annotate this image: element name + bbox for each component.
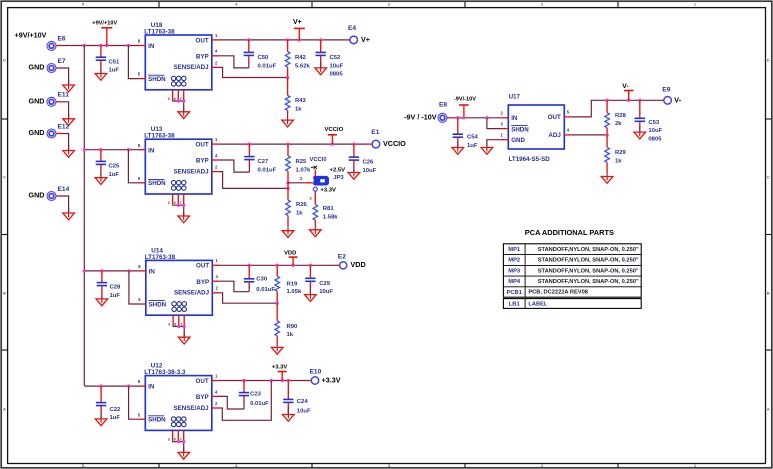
net stub VCCI0 at JP3 pin1 <box>310 157 327 178</box>
wire U14 SENSE/ADJ to divider <box>219 293 279 305</box>
svg-text:0.01uF: 0.01uF <box>258 63 277 69</box>
svg-text:BYP: BYP <box>196 158 209 165</box>
svg-text:1.07k: 1.07k <box>296 168 311 174</box>
svg-text:E12: E12 <box>58 123 70 130</box>
svg-text:BYP: BYP <box>196 394 209 401</box>
svg-text:0805: 0805 <box>648 136 662 142</box>
svg-text:C54: C54 <box>467 135 479 141</box>
capacitor C23 <box>239 381 269 410</box>
resistor R90 <box>275 303 298 342</box>
svg-text:LT1763-38: LT1763-38 <box>145 254 176 261</box>
svg-text:GND: GND <box>29 191 45 200</box>
svg-text:5: 5 <box>138 412 141 417</box>
svg-text:VDD: VDD <box>351 260 366 269</box>
svg-text:STANDOFF,NYLON, SNAP-ON, 0.250: STANDOFF,NYLON, SNAP-ON, 0.250" <box>538 247 639 253</box>
svg-text:+3.3V: +3.3V <box>320 188 336 194</box>
capacitor C27 <box>244 144 276 173</box>
regulator U12 LT1763-38-3.3 <box>144 363 212 431</box>
U18 pin 4 BYP stub <box>212 49 219 56</box>
svg-text:4: 4 <box>235 2 238 7</box>
regulator U13 LT1763-38 <box>144 126 212 194</box>
svg-text:1k: 1k <box>615 158 622 164</box>
svg-text:10uF: 10uF <box>319 289 333 295</box>
svg-text:R19: R19 <box>287 281 299 287</box>
capacitor C50 <box>244 40 277 69</box>
svg-text:SHDN: SHDN <box>148 417 166 424</box>
wire U14 BYP loop <box>219 281 249 292</box>
svg-text:4: 4 <box>215 153 218 158</box>
svg-text:C28: C28 <box>110 285 122 291</box>
wire U17 OUT rail V- <box>571 99 664 117</box>
svg-text:C53: C53 <box>648 120 660 126</box>
ground at R90 <box>271 342 283 354</box>
net label +3.3V at E10 <box>322 375 341 384</box>
svg-text:1k: 1k <box>287 332 294 338</box>
ground at E14 <box>63 208 75 220</box>
svg-text:C26: C26 <box>363 160 375 166</box>
net label VCCIO at E1 <box>383 139 406 148</box>
svg-text:B: B <box>3 290 6 295</box>
U14 pin 5 SHDN stub <box>138 297 146 304</box>
turret E4 V+ output <box>348 25 358 44</box>
svg-text:0.01uF: 0.01uF <box>250 401 269 407</box>
svg-text:6: 6 <box>174 97 176 101</box>
svg-text:SENSE/ADJ: SENSE/ADJ <box>174 405 210 412</box>
svg-text:1uF: 1uF <box>467 143 478 149</box>
U12 pin 8 IN stub <box>138 379 146 386</box>
wire U13 OUT rail VCCIO <box>219 142 373 145</box>
resistor R43 <box>285 78 306 116</box>
svg-text:0.01uF: 0.01uF <box>258 168 277 174</box>
ground at R26 <box>282 225 294 237</box>
svg-text:4: 4 <box>215 49 218 54</box>
U14 ground <box>178 332 190 344</box>
svg-text:IN: IN <box>148 43 155 50</box>
svg-text:C: C <box>3 174 6 179</box>
svg-text:VCCIO: VCCIO <box>325 127 344 133</box>
svg-text:E1: E1 <box>371 129 379 136</box>
wire U12 SHDN branch <box>129 386 139 419</box>
capacitor C25 <box>96 150 120 178</box>
svg-text:1uF: 1uF <box>109 68 120 74</box>
svg-text:+3.3V: +3.3V <box>322 375 341 384</box>
svg-text:C52: C52 <box>330 55 342 61</box>
ground at C26 <box>348 167 360 179</box>
ground at C54 <box>452 142 464 154</box>
U18 ground-pin wire <box>173 99 186 112</box>
svg-text:3: 3 <box>501 121 504 126</box>
svg-text:2: 2 <box>215 165 218 170</box>
svg-text:IN: IN <box>148 147 155 154</box>
svg-text:E11: E11 <box>58 92 70 99</box>
ground at C22 <box>95 413 107 425</box>
svg-text:4: 4 <box>215 389 218 394</box>
svg-text:5: 5 <box>567 110 570 115</box>
wire U14 SHDN branch <box>129 271 139 304</box>
svg-text:2: 2 <box>216 286 219 291</box>
svg-text:A: A <box>767 406 770 411</box>
net label V- at E9 <box>674 95 681 104</box>
net label -9V / -10V <box>404 113 437 122</box>
wire E11 to ground <box>56 102 69 119</box>
turret E9 V- output <box>662 86 671 104</box>
U13 pin 8 IN stub <box>138 143 146 150</box>
svg-text:IN: IN <box>148 384 155 391</box>
svg-text:SHDN: SHDN <box>149 301 167 308</box>
svg-text:SENSE/ADJ: SENSE/ADJ <box>174 64 210 71</box>
svg-text:3: 3 <box>168 322 170 326</box>
svg-text:C25: C25 <box>109 164 121 170</box>
U12 pin 1 OUT stub <box>212 373 219 380</box>
table PCA ADDITIONAL PARTS <box>503 228 641 309</box>
wire U17 SHDN branch <box>487 118 502 129</box>
svg-text:V-: V- <box>674 95 681 104</box>
svg-text:1.58k: 1.58k <box>323 214 338 220</box>
svg-text:PCB1: PCB1 <box>506 290 522 296</box>
svg-text:C24: C24 <box>297 399 309 405</box>
svg-text:+9V/+10V: +9V/+10V <box>92 20 117 26</box>
svg-text:MP2: MP2 <box>508 258 520 264</box>
U18 GND pins 3,6,7 <box>168 90 184 101</box>
svg-text:ADJ: ADJ <box>548 132 561 139</box>
svg-text:2: 2 <box>501 111 504 116</box>
svg-text:R42: R42 <box>295 55 307 61</box>
svg-text:7: 7 <box>180 322 182 326</box>
svg-text:R28: R28 <box>615 113 627 119</box>
svg-text:1: 1 <box>501 133 504 138</box>
svg-text:10uF: 10uF <box>330 63 344 69</box>
svg-text:MP4: MP4 <box>508 279 521 285</box>
wire E7 to ground <box>56 68 69 85</box>
svg-text:6: 6 <box>174 201 176 205</box>
svg-text:C30: C30 <box>256 277 268 283</box>
svg-text:C51: C51 <box>109 59 121 65</box>
svg-text:R81: R81 <box>323 206 335 212</box>
U14 pin 1 OUT stub <box>212 258 219 265</box>
svg-text:E8: E8 <box>439 101 447 108</box>
power flag V- <box>622 83 633 100</box>
GND label for E14 <box>29 191 45 200</box>
U13 ground-pin wire <box>173 204 186 217</box>
svg-text:R25: R25 <box>296 159 308 165</box>
svg-text:4: 4 <box>567 128 570 133</box>
svg-text:IN: IN <box>511 115 518 122</box>
svg-text:5: 5 <box>82 2 85 7</box>
svg-text:SENSE/ADJ: SENSE/ADJ <box>174 290 210 297</box>
U14 pin 8 IN stub <box>138 264 146 271</box>
capacitor C53 <box>635 100 663 142</box>
ground at C25 <box>95 172 107 184</box>
wire U17 ADJ to divider <box>571 133 609 136</box>
svg-text:C23: C23 <box>250 391 262 397</box>
capacitor C54 <box>453 118 479 149</box>
wire U12 OUT rail +3.3V <box>219 379 312 382</box>
svg-text:VCCIO: VCCIO <box>383 139 406 148</box>
power flag +3.3V <box>272 364 288 380</box>
turret E6 +9V/+10V input <box>47 36 66 51</box>
svg-text:LT1763-38: LT1763-38 <box>144 28 175 35</box>
svg-text:IN: IN <box>149 269 156 276</box>
power flag -9V/-10V <box>454 96 476 117</box>
U18 pin 2 SENSE/ADJ stub <box>212 60 219 67</box>
svg-text:OUT: OUT <box>196 37 209 44</box>
U14 ground-pin wire <box>173 325 186 338</box>
wire JP3 pin3 to R81 <box>314 191 316 204</box>
svg-text:GND: GND <box>29 128 45 137</box>
svg-text:7: 7 <box>180 97 182 101</box>
svg-text:6: 6 <box>174 322 176 326</box>
U14 pin 4 BYP stub <box>212 274 219 281</box>
U12 GND pins 3,6,7 <box>168 430 184 441</box>
svg-text:C: C <box>767 174 770 179</box>
ground at C29 <box>305 289 317 301</box>
svg-text:VCCI0: VCCI0 <box>310 157 327 163</box>
svg-text:GND: GND <box>511 137 525 144</box>
ground at C52 <box>315 62 327 74</box>
svg-text:STANDOFF,NYLON, SNAP-ON, 0.250: STANDOFF,NYLON, SNAP-ON, 0.250" <box>538 268 639 274</box>
wire E8 to U17 IN <box>447 116 502 119</box>
U17 pin 4 ADJ stub <box>564 128 571 135</box>
svg-text:E7: E7 <box>58 58 66 65</box>
svg-text:8: 8 <box>138 264 141 269</box>
U13 GND pins 3,6,7 <box>168 194 184 205</box>
svg-text:MP1: MP1 <box>508 247 521 253</box>
svg-text:1.05k: 1.05k <box>287 289 302 295</box>
svg-text:OUT: OUT <box>196 378 209 385</box>
U12 ground-pin wire <box>173 440 186 453</box>
svg-text:E6: E6 <box>58 36 66 43</box>
svg-text:A: A <box>3 406 6 411</box>
resistor R25 <box>286 144 311 183</box>
net label +9V/+10V <box>15 30 47 39</box>
U12 pin 5 SHDN stub <box>138 412 146 419</box>
svg-text:1k: 1k <box>296 210 303 216</box>
svg-text:STANDOFF,NYLON, SNAP-ON, 0.250: STANDOFF,NYLON, SNAP-ON, 0.250" <box>538 258 639 264</box>
GND label for E11 <box>29 97 45 106</box>
svg-text:JP3: JP3 <box>333 175 344 181</box>
ground at C51 <box>95 68 107 80</box>
wire E14 to ground <box>56 196 69 213</box>
svg-text:10uF: 10uF <box>297 409 311 415</box>
GND label for E12 <box>29 128 45 137</box>
turret E14 GND <box>47 186 70 201</box>
svg-text:1uF: 1uF <box>109 172 120 178</box>
svg-text:E10: E10 <box>310 369 322 376</box>
resistor R81 <box>313 205 338 225</box>
U13 pin 1 OUT stub <box>212 137 219 144</box>
svg-text:7: 7 <box>180 438 182 442</box>
power flag V+ <box>293 19 305 40</box>
ground at R43 <box>282 115 294 127</box>
svg-text:OUT: OUT <box>196 263 209 270</box>
U18 pin 8 IN stub <box>138 39 146 46</box>
U12 ground <box>178 447 190 459</box>
svg-text:D: D <box>767 57 770 62</box>
svg-text:1: 1 <box>216 258 219 263</box>
svg-text:D: D <box>3 57 6 62</box>
svg-text:C27: C27 <box>258 159 270 165</box>
svg-text:LT1763-38: LT1763-38 <box>144 133 175 140</box>
ground at E7 <box>63 80 75 92</box>
wire U18 SENSE/ADJ to divider <box>219 67 290 79</box>
svg-text:LABEL: LABEL <box>528 301 547 307</box>
svg-text:OUT: OUT <box>548 114 561 121</box>
turret E11 GND <box>47 92 69 107</box>
wire trunk to U12 IN <box>84 384 138 387</box>
svg-text:LT1763-38-3.3: LT1763-38-3.3 <box>144 369 186 376</box>
capacitor C29 <box>305 265 333 295</box>
regulator U18 LT1763-38 <box>144 22 212 90</box>
wire U13 BYP loop <box>219 160 250 172</box>
wire U18 OUT rail <box>219 38 351 41</box>
svg-text:0.01uF: 0.01uF <box>256 287 275 293</box>
wire U18 BYP loop <box>219 56 249 68</box>
ground at C24 <box>283 409 295 421</box>
svg-text:3: 3 <box>168 438 170 442</box>
wire E6 to U18 IN <box>56 44 139 47</box>
svg-text:E2: E2 <box>338 254 346 261</box>
ground at R29 <box>601 171 613 183</box>
svg-text:3: 3 <box>388 2 391 7</box>
power flag VCCIO <box>325 127 344 144</box>
svg-text:2: 2 <box>215 60 218 65</box>
turret E10 +3.3V output <box>310 369 322 385</box>
svg-text:1: 1 <box>694 2 697 7</box>
svg-text:2k: 2k <box>615 121 622 127</box>
resistor R29 <box>605 135 627 171</box>
wire U13 SHDN branch <box>128 150 138 183</box>
svg-text:-9V / -10V: -9V / -10V <box>404 113 437 122</box>
svg-text:E4: E4 <box>348 25 356 32</box>
svg-text:V+: V+ <box>293 19 302 26</box>
turret E1 VCCIO output <box>371 129 379 148</box>
ground at E12 <box>63 145 75 157</box>
svg-text:5: 5 <box>138 72 141 77</box>
svg-text:MP3: MP3 <box>508 268 521 274</box>
capacitor C52 <box>316 40 344 78</box>
svg-text:8: 8 <box>138 379 141 384</box>
capacitor C51 <box>96 46 120 74</box>
svg-text:SENSE/ADJ: SENSE/ADJ <box>174 168 210 175</box>
turret E12 GND <box>47 123 70 138</box>
wire E12 to ground <box>56 134 69 151</box>
svg-text:1: 1 <box>215 373 218 378</box>
svg-text:E9: E9 <box>662 86 670 93</box>
regulator U14 LT1763-38 <box>145 247 213 315</box>
svg-text:R26: R26 <box>296 202 308 208</box>
svg-text:R29: R29 <box>615 150 627 156</box>
svg-text:BYP: BYP <box>196 53 209 60</box>
svg-text:5: 5 <box>138 297 141 302</box>
svg-text:B: B <box>767 290 770 295</box>
ground at C53 <box>634 127 646 139</box>
svg-text:+2.5V: +2.5V <box>330 168 346 174</box>
U18 pin 5 SHDN stub <box>138 72 146 79</box>
svg-text:VDD: VDD <box>284 251 296 257</box>
svg-text:OUT: OUT <box>196 142 209 149</box>
svg-text:PCA ADDITIONAL PARTS: PCA ADDITIONAL PARTS <box>525 228 614 237</box>
U13 ground <box>178 211 190 223</box>
wire U17 GND pin to ground <box>487 140 502 148</box>
svg-text:LT1964-S5-SD: LT1964-S5-SD <box>509 156 551 163</box>
resistor R19 <box>275 265 302 303</box>
svg-text:-9V/-10V: -9V/-10V <box>454 96 476 102</box>
svg-text:1uF: 1uF <box>110 415 121 421</box>
svg-text:1k: 1k <box>295 107 302 113</box>
net label VDD at E2 <box>351 260 366 269</box>
GND label for E7 <box>29 63 45 72</box>
U13 pin 2 SENSE/ADJ stub <box>212 165 219 172</box>
resistor R28 <box>605 100 627 135</box>
svg-text:C22: C22 <box>110 407 122 413</box>
svg-text:1: 1 <box>215 33 218 38</box>
power flag +9V/+10V <box>92 20 117 45</box>
svg-text:3: 3 <box>168 97 170 101</box>
ground at U17 GND pin <box>481 142 493 154</box>
svg-text:BYP: BYP <box>196 279 209 286</box>
U17 pin 5 OUT stub <box>564 110 571 117</box>
svg-text:0805: 0805 <box>330 72 344 78</box>
U13 pin 5 SHDN stub <box>138 176 146 183</box>
svg-text:SHDN: SHDN <box>511 126 529 133</box>
svg-text:1: 1 <box>215 137 218 142</box>
capacitor C26 <box>349 144 377 174</box>
svg-text:STANDOFF,NYLON, SNAP-ON, 0.250: STANDOFF,NYLON, SNAP-ON, 0.250" <box>538 279 639 285</box>
capacitor C22 <box>96 386 121 421</box>
wire trunk to U13 IN <box>83 148 139 151</box>
wire U12 BYP loop <box>219 396 244 409</box>
ground at E11 <box>63 113 75 125</box>
svg-text:V+: V+ <box>361 35 370 44</box>
svg-text:3: 3 <box>168 201 170 205</box>
svg-text:10uF: 10uF <box>363 168 377 174</box>
svg-text:C50: C50 <box>258 55 270 61</box>
turret E2 VDD output <box>338 254 347 269</box>
svg-text:8: 8 <box>138 143 141 148</box>
U12 pin 2 SENSE/ADJ stub <box>212 401 219 408</box>
svg-text:E14: E14 <box>58 186 70 193</box>
wire U13 SENSE/ADJ to divider <box>219 172 290 190</box>
jumper JP3 <box>313 168 345 186</box>
U14 GND pins 3,6,7 <box>168 315 184 326</box>
power flag VDD <box>284 251 298 266</box>
svg-text:GND: GND <box>29 97 45 106</box>
U17 pin 3 SHDN stub <box>501 121 509 128</box>
U13 pin 4 BYP stub <box>212 153 219 160</box>
U12 pin 4 BYP stub <box>212 389 219 396</box>
svg-text:C29: C29 <box>319 281 331 287</box>
U18 ground <box>178 106 190 118</box>
ground at C28 <box>96 293 108 305</box>
net label V+ at E4 <box>361 35 370 44</box>
svg-text:U17: U17 <box>509 94 521 101</box>
wire U12 SENSE/ADJ to OUT <box>219 381 272 421</box>
svg-text:5: 5 <box>138 176 141 181</box>
ground at R81 <box>310 224 322 236</box>
svg-text:2: 2 <box>541 2 544 7</box>
wire trunk to U14 IN <box>83 269 139 272</box>
svg-text:+9V/+10V: +9V/+10V <box>15 30 47 39</box>
svg-text:10uF: 10uF <box>648 128 662 134</box>
U18 pin 1 OUT stub <box>212 33 219 40</box>
svg-text:1uF: 1uF <box>110 293 121 299</box>
JP3 pin 3 open pin <box>310 187 337 200</box>
wire U14 OUT rail VDD <box>219 264 340 267</box>
regulator U17 LT1964-S5-SD <box>508 94 564 163</box>
svg-text:7: 7 <box>180 201 182 205</box>
svg-text:8: 8 <box>138 39 141 44</box>
svg-text:4: 4 <box>216 274 219 279</box>
